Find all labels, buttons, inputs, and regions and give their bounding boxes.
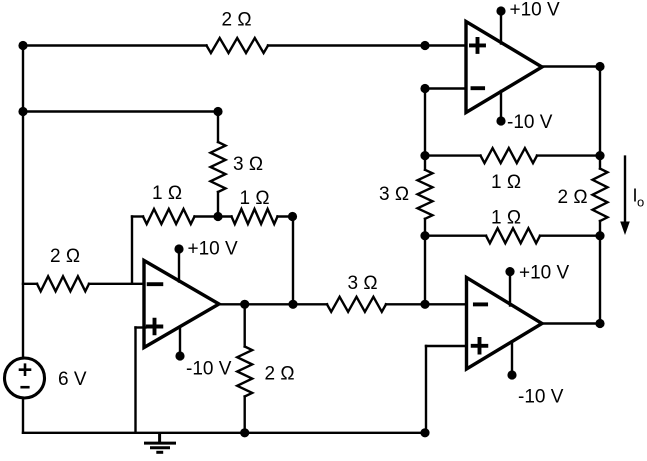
svg-text:+10 V: +10 V — [519, 263, 570, 284]
wire between 1-ohm resistors — [195, 215, 232, 217]
svg-text:6 V: 6 V — [58, 369, 87, 390]
wire feedback top row right — [537, 154, 600, 156]
wire second feedback row right — [540, 234, 600, 236]
wire stub above 3-ohm vertical — [217, 112, 219, 143]
wire U2 +10V stub — [500, 11, 502, 44]
wire top rail right of 2-ohm to U2 + input — [268, 44, 466, 46]
wire stub below 3-ohm vertical — [217, 192, 219, 217]
node U2 minus input — [420, 84, 429, 93]
svg-text:1 Ω: 1 Ω — [240, 188, 270, 209]
node second feedback row left — [420, 231, 429, 240]
node U2 + input — [420, 41, 429, 50]
svg-text:1 Ω: 1 Ω — [491, 172, 521, 193]
resistor 1-ohm left — [143, 209, 195, 224]
ground — [144, 433, 176, 452]
node feedback row right — [595, 151, 604, 160]
node second rail left — [18, 107, 27, 116]
svg-text:1 Ω: 1 Ω — [491, 208, 521, 229]
node junction 1-ohm/3-ohm — [213, 212, 222, 221]
wire U2 minus down to feedback row — [424, 89, 426, 156]
node U3 +10V terminal — [505, 267, 514, 276]
U2 minus sign — [473, 86, 484, 90]
resistor 1-ohm feedback top — [481, 148, 538, 163]
U2 plus sign — [471, 39, 484, 52]
wire 2-ohm to U1 minus — [89, 283, 145, 285]
wire U3 output — [542, 322, 600, 324]
svg-text:-10 V: -10 V — [186, 359, 232, 380]
node output to feedback — [288, 300, 297, 309]
svg-text:2 Ω: 2 Ω — [222, 9, 252, 30]
svg-text:+10 V: +10 V — [510, 0, 561, 21]
resistor 1-ohm feedback bottom — [486, 228, 540, 243]
wire left rail — [22, 46, 24, 359]
op-amp U2 — [466, 22, 542, 113]
wire U1 output row — [219, 303, 327, 305]
wire 3-ohm to U3 minus — [386, 303, 467, 305]
node 2-ohm load bottom — [240, 428, 249, 437]
U1 minus sign — [149, 282, 162, 286]
wire U3 output up to feedback row — [599, 236, 601, 324]
op-amp U3 — [467, 278, 543, 370]
node U2 output — [595, 62, 604, 71]
node U2 +10V terminal — [496, 6, 505, 15]
svg-text:3 Ω: 3 Ω — [348, 273, 378, 294]
resistor 3-ohm vertical lower — [424, 156, 426, 170]
U3 plus sign — [473, 339, 487, 353]
svg-text:+10 V: +10 V — [188, 239, 239, 260]
wire second feedback row left — [425, 234, 486, 236]
wire U2 minus input — [425, 87, 466, 89]
svg-text:2 Ω: 2 Ω — [558, 187, 588, 208]
svg-text:3 Ω: 3 Ω — [379, 184, 409, 205]
resistor 1-ohm right — [232, 209, 278, 224]
voltage source 6V — [5, 358, 45, 398]
source minus sign — [22, 386, 29, 389]
node second feedback row right — [595, 231, 604, 240]
wire 2-ohm load lower stub — [243, 397, 245, 433]
resistor 2-ohm top feedback — [207, 38, 269, 53]
node feedback row left — [420, 151, 429, 160]
wire U1 plus input horizontal — [136, 326, 146, 328]
resistor 2-ohm load — [237, 347, 252, 397]
wire 1-ohm row right end — [278, 215, 293, 217]
node U1 +10V terminal — [174, 244, 183, 253]
node U2 -10V terminal — [496, 116, 505, 125]
wire feedback top row left — [425, 154, 481, 156]
wire second rail — [23, 110, 218, 112]
wire U3 plus input vertical — [425, 346, 427, 433]
svg-text:2 Ω: 2 Ω — [50, 246, 80, 267]
wire U3 +10V stub — [509, 272, 511, 306]
wire feedback vertical x=293 — [292, 217, 294, 305]
wire U1 minus input from rail — [23, 283, 37, 285]
wire U1 plus input vertical to ground rail — [134, 328, 136, 433]
resistor 3-ohm vertical upper — [211, 142, 226, 192]
wire U2 output down to feedback row — [599, 67, 601, 156]
wire source to bottom rail — [22, 399, 24, 433]
svg-text:o: o — [637, 195, 644, 210]
current arrow Io — [624, 157, 626, 224]
resistor 2-ohm input — [37, 276, 89, 291]
wire U2 -10V stub — [500, 91, 502, 121]
wire U2 output — [542, 65, 600, 67]
wire U3 plus input horizontal — [426, 345, 467, 347]
node 1-ohm right end — [288, 212, 297, 221]
source plus sign — [20, 365, 30, 375]
resistor 2-ohm vertical right — [599, 156, 601, 169]
wire 2-ohm load upper stub — [243, 304, 245, 346]
node U1 -10V terminal — [175, 351, 184, 360]
wire bottom rail — [23, 432, 425, 434]
node U1 output / 2-ohm load — [240, 300, 249, 309]
node bottom rail right end — [420, 428, 429, 437]
wire feedback vertical x=132 — [131, 217, 133, 284]
wire U1 -10V stub — [179, 327, 181, 356]
svg-text:-10 V: -10 V — [518, 387, 564, 408]
wire U1 +10V stub — [178, 249, 180, 282]
node second rail right — [213, 107, 222, 116]
node U3 output — [595, 319, 604, 328]
svg-text:2 Ω: 2 Ω — [265, 363, 295, 384]
node top-left — [18, 41, 27, 50]
wire 1-ohm row left end — [132, 215, 143, 217]
op-amp U1 — [144, 261, 219, 348]
U1 plus sign — [148, 320, 162, 334]
node U3 -10V terminal — [507, 370, 516, 379]
U3 minus sign — [475, 302, 486, 306]
svg-text:-10 V: -10 V — [507, 112, 553, 133]
svg-text:3 Ω: 3 Ω — [233, 154, 263, 175]
wire U3 -10V stub — [511, 342, 513, 376]
resistor 3-ohm horizontal — [327, 297, 386, 312]
wire top rail left of 2-ohm — [23, 44, 207, 46]
node U3 minus input — [420, 300, 429, 309]
svg-text:1 Ω: 1 Ω — [152, 183, 182, 204]
wire x=425 down to U3 minus — [424, 236, 426, 305]
